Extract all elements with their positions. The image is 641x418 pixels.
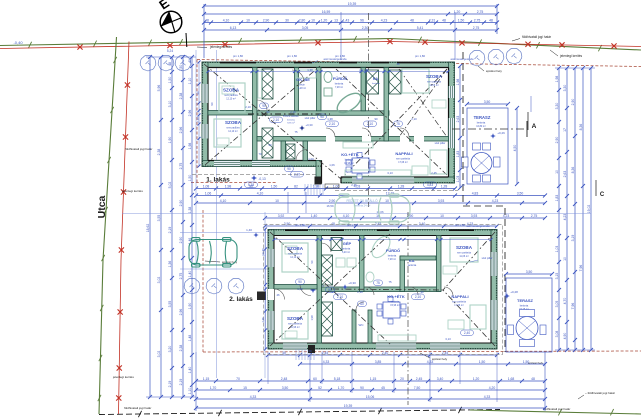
svg-text:3,93: 3,93 <box>471 214 478 218</box>
svg-text:KA.: KA. <box>373 77 379 81</box>
svg-text:SZOBA: SZOBA <box>287 246 304 251</box>
svg-text:2,10: 2,10 <box>337 295 343 299</box>
svg-text:SZOBA: SZOBA <box>287 316 304 321</box>
svg-text:1,50: 1,50 <box>179 65 183 72</box>
house1 room label szoba nw <box>223 88 240 101</box>
dimension chain top row4 <box>202 26 499 32</box>
svg-text:2,10: 2,10 <box>415 295 421 299</box>
house2 room label ka <box>408 259 417 267</box>
svg-text:5,28 m²: 5,28 m² <box>298 87 306 90</box>
svg-text:Utca: Utca <box>96 195 108 218</box>
house1 outer wall east <box>449 62 455 183</box>
svg-text:82: 82 <box>294 184 298 188</box>
house2 windows south wall <box>283 343 460 349</box>
svg-text:90: 90 <box>298 280 302 284</box>
terrace2 width dim <box>504 270 554 276</box>
house2 partition gep-furdo <box>360 236 365 292</box>
svg-text:2,96: 2,96 <box>179 127 183 134</box>
house1 shaft hatch 4 <box>389 70 401 94</box>
svg-text:7,28 m²: 7,28 m² <box>335 86 343 89</box>
svg-text:4,10: 4,10 <box>343 214 350 218</box>
dimension chain west row4 <box>179 55 185 399</box>
svg-text:1. lakás: 1. lakás <box>206 177 230 184</box>
svg-text:FÜRDŐ: FÜRDŐ <box>386 248 400 253</box>
house1 partition horizontal left rooms <box>208 111 253 116</box>
house1 sliding door south <box>352 177 414 183</box>
svg-text:1,10: 1,10 <box>188 388 192 395</box>
wall dims house2 left column <box>261 248 314 323</box>
svg-text:4,50: 4,50 <box>513 145 517 152</box>
svg-text:TERASZ: TERASZ <box>474 115 491 120</box>
svg-text:13: 13 <box>334 18 338 22</box>
svg-text:20: 20 <box>400 377 404 381</box>
svg-text:3,30: 3,30 <box>563 85 567 92</box>
section line house2 <box>407 212 409 405</box>
svg-text:8,36: 8,36 <box>571 167 575 174</box>
svg-text:90: 90 <box>262 104 266 108</box>
house2 name label <box>229 296 253 303</box>
svg-text:SZOBA: SZOBA <box>426 74 443 79</box>
tree group northeast 3 <box>506 48 522 64</box>
house2 room label szoba nw <box>287 246 304 259</box>
svg-text:11,06 m²: 11,06 m² <box>459 255 468 258</box>
svg-text:pm,90: pm,90 <box>261 248 265 256</box>
svg-text:építési hely: építési hely <box>528 361 544 365</box>
svg-text:GK. BE: GK. BE <box>296 77 310 82</box>
vertical guide line x216 <box>216 50 218 378</box>
svg-text:1,50: 1,50 <box>523 360 530 364</box>
tree group mid 2 <box>206 278 222 294</box>
svg-text:2,90: 2,90 <box>263 18 270 22</box>
house1 room label ka <box>372 77 381 85</box>
svg-text:46: 46 <box>276 293 280 297</box>
house1 west mini chain <box>198 61 201 168</box>
svg-text:40: 40 <box>188 59 192 63</box>
section line A vertical house1 <box>368 13 370 207</box>
svg-text:48: 48 <box>331 222 335 226</box>
svg-text:5,02: 5,02 <box>168 182 172 189</box>
svg-text:KO.+ÉTK: KO.+ÉTK <box>341 152 359 157</box>
svg-text:2. lakás: 2. lakás <box>229 296 253 303</box>
dimension chain top row1 <box>202 2 499 8</box>
house2 partition horizontal left rooms <box>274 285 317 290</box>
house1 shaft hatch 5 <box>286 144 295 159</box>
house1 kitchen counter <box>343 142 411 176</box>
house2 room label wc <box>359 323 365 327</box>
svg-text:1,50: 1,50 <box>458 18 465 22</box>
svg-text:1,98: 1,98 <box>225 184 232 188</box>
house2 bed szoba east <box>443 238 478 274</box>
wall dims house1 bottom <box>329 163 465 187</box>
svg-text:2,90: 2,90 <box>571 99 575 106</box>
svg-text:4,23: 4,23 <box>503 214 510 218</box>
house1 name label <box>206 177 230 184</box>
house1 room label nappali <box>395 151 412 164</box>
svg-text:7,50: 7,50 <box>414 386 421 390</box>
house1 corridor level mark <box>299 123 313 131</box>
svg-text:2,10: 2,10 <box>367 122 373 126</box>
svg-text:1,40: 1,40 <box>188 367 192 374</box>
house2 door arcs <box>300 243 453 310</box>
svg-text:1,43: 1,43 <box>343 18 350 22</box>
house2 pm heights <box>295 223 466 227</box>
house1 room label gk <box>296 77 310 90</box>
svg-text:12,10 m²: 12,10 m² <box>290 256 300 259</box>
house2 outer wall south <box>268 343 497 349</box>
dimension chain above house2 <box>263 214 547 220</box>
building envelope red dashed bottom <box>203 351 641 352</box>
svg-text:15,06: 15,06 <box>377 210 384 214</box>
svg-text:KA.: KA. <box>409 259 415 263</box>
house2 shaft hatch 3 <box>331 238 342 251</box>
svg-text:90: 90 <box>374 117 378 121</box>
house1 bed szoba nw <box>219 83 245 112</box>
house2 entrance step black <box>308 345 315 353</box>
tree group mid 1 <box>184 278 200 294</box>
svg-text:3,40: 3,40 <box>419 222 426 226</box>
house1 beam lines north wall <box>220 62 430 64</box>
svg-text:+0,28: +0,28 <box>510 290 518 294</box>
house2 west entrance <box>257 289 285 300</box>
svg-text:4,10: 4,10 <box>257 191 264 195</box>
svg-text:2,45: 2,45 <box>351 183 357 187</box>
east chains connectors <box>555 68 595 350</box>
svg-text:1,08: 1,08 <box>203 184 210 188</box>
svg-text:+0,30: +0,30 <box>305 123 313 127</box>
house1 window south-west wall <box>214 161 270 167</box>
svg-text:2,75: 2,75 <box>474 18 481 22</box>
svg-text:pm 1,80: pm 1,80 <box>233 54 244 58</box>
svg-text:2,90: 2,90 <box>555 137 559 144</box>
terrace1 height note <box>490 131 505 139</box>
svg-text:2,19: 2,19 <box>168 227 172 234</box>
svg-text:1,38: 1,38 <box>188 207 192 214</box>
house2 sofa nappali <box>448 305 486 329</box>
section marker A label <box>528 112 537 130</box>
north boundary red legal line with x marks <box>0 39 641 50</box>
svg-text:2,75: 2,75 <box>179 163 183 170</box>
house2 partition vertical left <box>317 236 322 344</box>
svg-text:75: 75 <box>294 130 298 134</box>
house1 window east wall <box>449 86 455 148</box>
svg-text:A: A <box>532 123 537 130</box>
dimension chain west row3 <box>168 55 174 399</box>
svg-text:60: 60 <box>360 302 364 306</box>
svg-text:2,75: 2,75 <box>179 273 183 280</box>
tree group west top 1 <box>140 55 156 71</box>
house1 door arcs <box>257 70 409 161</box>
svg-text:5,41: 5,41 <box>417 26 424 30</box>
svg-text:19,02: 19,02 <box>587 205 591 214</box>
capsule dims house2 <box>296 279 474 336</box>
svg-text:2,75: 2,75 <box>477 10 484 14</box>
terrace1 table <box>471 153 492 174</box>
house2 gep fixtures <box>336 258 356 267</box>
svg-text:45: 45 <box>381 386 385 390</box>
svg-text:6,13: 6,13 <box>230 26 237 30</box>
svg-text:3,10: 3,10 <box>168 101 172 108</box>
svg-text:1,98: 1,98 <box>555 76 559 83</box>
svg-text:2,38: 2,38 <box>157 149 161 156</box>
house2 room label nappali <box>451 294 468 307</box>
svg-text:3,92: 3,92 <box>278 214 285 218</box>
svg-text:2,31: 2,31 <box>429 18 436 22</box>
tree group west top 3 <box>175 55 191 71</box>
svg-text:9,38: 9,38 <box>248 183 254 187</box>
house2 room label szoba ne <box>456 245 473 258</box>
tree group west top 2 <box>158 55 174 71</box>
svg-text:3,50: 3,50 <box>526 270 533 274</box>
svg-text:földhivatali jogi határ: földhivatali jogi határ <box>522 35 552 39</box>
svg-text:4,70: 4,70 <box>563 298 567 305</box>
carport label <box>327 198 384 214</box>
svg-text:jelenlegi kerítés: jelenlegi kerítés <box>559 54 583 58</box>
house2 partition ka <box>400 256 436 292</box>
house2 window west wall <box>268 249 274 330</box>
svg-text:16,80 m²: 16,80 m² <box>476 125 486 128</box>
house2 outer wall west <box>268 230 274 350</box>
svg-text:3,50: 3,50 <box>282 386 289 390</box>
svg-text:70: 70 <box>236 377 240 381</box>
house2 outer wall north <box>268 230 497 236</box>
house1 window west wall 2 <box>202 124 208 139</box>
svg-text:1,20: 1,20 <box>321 18 328 22</box>
terrace1 label <box>474 115 491 128</box>
house2 west mini chain <box>264 228 267 351</box>
carport faint car <box>335 194 410 224</box>
svg-text:jelenlegi kerítés: jelenlegi kerítés <box>121 189 143 193</box>
house1 roof diagonals dash-dot <box>204 64 447 179</box>
house1 room label szoba east <box>426 74 443 87</box>
svg-text:48: 48 <box>489 18 493 22</box>
svg-text:2,30: 2,30 <box>362 26 369 30</box>
lot division dashed line <box>463 52 505 352</box>
terrace1 width dim <box>465 100 510 106</box>
svg-text:19,39: 19,39 <box>344 404 353 408</box>
street name Utca <box>96 195 108 218</box>
svg-text:90: 90 <box>320 115 324 119</box>
svg-text:1,15: 1,15 <box>370 377 377 381</box>
svg-text:3,55: 3,55 <box>168 301 172 308</box>
svg-text:jelenlegi kerítés: jelenlegi kerítés <box>209 45 233 49</box>
house2 bathtub <box>368 233 393 261</box>
svg-text:75: 75 <box>396 122 400 126</box>
svg-text:1,10: 1,10 <box>188 78 192 85</box>
svg-text:1,90: 1,90 <box>188 303 192 310</box>
svg-text:acél mestergerenda: acél mestergerenda <box>451 57 474 61</box>
svg-text:2,63: 2,63 <box>456 116 460 123</box>
svg-text:3,05: 3,05 <box>555 301 559 308</box>
boundary corner marker <box>185 33 188 47</box>
svg-text:SZOBA: SZOBA <box>223 88 240 93</box>
dimension chain below house2 <box>266 351 499 357</box>
svg-text:acél mestergerenda: acél mestergerenda <box>467 224 490 228</box>
house2 shaft hatch 2 <box>322 302 333 336</box>
svg-text:75: 75 <box>376 281 380 285</box>
svg-text:1,28: 1,28 <box>398 184 405 188</box>
house1 entrance walkway hatch <box>305 184 323 196</box>
svg-text:4,23: 4,23 <box>563 214 567 221</box>
house1 east small chain <box>456 64 462 190</box>
svg-text:1,00: 1,00 <box>297 287 303 291</box>
dimension chain east row5 <box>587 66 593 352</box>
envelope label eszaki <box>205 66 544 365</box>
svg-text:szél pillér: szél pillér <box>482 256 493 260</box>
dimension chain mid under house1 <box>194 184 457 190</box>
terrace1 height dim <box>513 106 519 186</box>
svg-text:5,20 m²: 5,20 m² <box>342 251 350 254</box>
house1 bed szoba sw <box>214 119 241 147</box>
svg-text:18,62: 18,62 <box>146 224 150 233</box>
dimension chain bottom row1 <box>194 377 547 383</box>
svg-text:3,05: 3,05 <box>302 26 309 30</box>
svg-text:3,19: 3,19 <box>571 235 575 242</box>
svg-text:2,10: 2,10 <box>357 290 363 294</box>
house2 partition ka-szoba <box>437 236 442 292</box>
west chain top connector <box>146 49 196 397</box>
svg-text:48: 48 <box>410 18 414 22</box>
svg-text:90: 90 <box>266 110 270 114</box>
svg-text:1,36: 1,36 <box>168 261 172 268</box>
svg-text:4,33: 4,33 <box>484 395 491 399</box>
dimension chain top row2 <box>202 10 499 16</box>
vertical guide line x196 <box>195 50 197 352</box>
svg-text:4,10: 4,10 <box>220 199 227 203</box>
svg-text:földhivatali jogi határ: földhivatali jogi határ <box>125 147 152 151</box>
svg-text:90: 90 <box>360 386 364 390</box>
svg-text:30: 30 <box>285 18 289 22</box>
dimension chain bottom row3 <box>194 395 547 401</box>
svg-text:96: 96 <box>360 18 364 22</box>
house2 bath fixtures <box>366 272 374 282</box>
svg-text:15,06: 15,06 <box>366 395 375 399</box>
svg-text:90: 90 <box>268 143 272 147</box>
house1 wardrobe gk <box>258 70 316 98</box>
svg-text:48: 48 <box>442 18 446 22</box>
svg-text:-0,13: -0,13 <box>258 177 265 181</box>
svg-text:1,40: 1,40 <box>188 271 192 278</box>
house1 wall insulation stipple <box>202 62 454 182</box>
house2 kitchen counter <box>378 335 416 341</box>
dimension chain east row1 <box>555 66 561 352</box>
svg-text:kerámia: kerámia <box>408 264 417 267</box>
svg-text:10: 10 <box>385 199 389 203</box>
wall dims house1 interior <box>258 110 417 161</box>
wall dims house2 interior <box>276 280 451 353</box>
svg-text:1,50: 1,50 <box>188 175 192 182</box>
svg-text:52: 52 <box>318 386 322 390</box>
svg-text:GÉP: GÉP <box>343 241 352 246</box>
dimension chain west row1 <box>146 55 152 399</box>
svg-text:2,90: 2,90 <box>179 237 183 244</box>
house2 room label furdo <box>386 248 400 261</box>
dimension chain bottom row2 <box>194 386 547 392</box>
svg-text:5,24: 5,24 <box>167 49 173 53</box>
house1 sofa nappali <box>412 150 447 175</box>
svg-text:2,19: 2,19 <box>179 379 183 386</box>
house1 room label ko-etk <box>341 152 359 165</box>
house1 outer wall south-west <box>202 161 321 167</box>
svg-text:KO.+ÉTK: KO.+ÉTK <box>387 294 405 299</box>
svg-text:2,10: 2,10 <box>294 173 300 177</box>
svg-text:1,70: 1,70 <box>338 386 345 390</box>
svg-text:3,85: 3,85 <box>375 360 382 364</box>
svg-text:NAPPALI: NAPPALI <box>451 294 468 299</box>
house2 bed szoba sw <box>282 311 308 339</box>
tree group mid 3 <box>228 278 244 294</box>
svg-text:1,20: 1,20 <box>473 377 480 381</box>
svg-text:12,19: 12,19 <box>386 191 395 195</box>
house1 szel piller notes <box>305 116 446 145</box>
house1 bath fixtures <box>324 72 332 97</box>
house1 outer wall west <box>202 62 208 167</box>
svg-text:3,13: 3,13 <box>387 171 393 175</box>
svg-text:3,50: 3,50 <box>517 191 524 195</box>
svg-text:10: 10 <box>555 170 559 174</box>
svg-text:1,50: 1,50 <box>479 360 486 364</box>
svg-text:1,03: 1,03 <box>456 176 460 183</box>
dimension chain west row2 <box>157 55 163 399</box>
house1 inner black wall lines <box>208 68 449 184</box>
dim connector verticals top <box>204 4 497 60</box>
terrace1 chairs <box>462 143 501 182</box>
house1 corridor wall south <box>257 136 449 142</box>
house2 shaft hatch 1 <box>322 255 333 285</box>
building envelope red dashed left <box>197 60 203 353</box>
svg-text:2,80: 2,80 <box>299 18 306 22</box>
svg-text:-0,40: -0,40 <box>13 40 23 45</box>
house1 shaft hatch 3 <box>367 70 379 94</box>
house2 window east wall <box>491 252 497 330</box>
svg-text:15: 15 <box>243 386 247 390</box>
svg-text:+0,26: +0,26 <box>497 131 505 135</box>
svg-text:3,93: 3,93 <box>438 199 445 203</box>
svg-text:3,55: 3,55 <box>157 215 161 222</box>
svg-text:2,75: 2,75 <box>531 214 538 218</box>
svg-text:pm 1,80: pm 1,80 <box>335 54 346 58</box>
svg-text:1,50: 1,50 <box>168 77 172 84</box>
dimension chain bottom row4 <box>194 404 547 410</box>
south boundary black dashed legal line <box>99 407 641 417</box>
svg-text:kerámia 24 m²: kerámia 24 m² <box>354 204 371 208</box>
house1 outer wall south-east <box>341 177 455 183</box>
svg-text:2,10: 2,10 <box>273 118 279 122</box>
house1 entrance connector wall <box>316 161 322 184</box>
svg-text:4,23: 4,23 <box>492 199 499 203</box>
svg-text:12,10 m²: 12,10 m² <box>226 98 236 101</box>
svg-text:1,83: 1,83 <box>555 195 559 202</box>
svg-text:90: 90 <box>287 167 291 171</box>
svg-text:SZOBA: SZOBA <box>456 245 473 250</box>
svg-text:9,91 m²: 9,91 m² <box>287 122 295 125</box>
svg-text:pm 1,80: pm 1,80 <box>287 54 298 58</box>
dimension chain mid row2 <box>194 199 547 205</box>
building envelope red dashed house1 south <box>191 182 276 184</box>
svg-text:7,28 m²: 7,28 m² <box>388 258 396 261</box>
svg-text:7,96: 7,96 <box>579 265 583 272</box>
svg-text:1,40: 1,40 <box>311 214 318 218</box>
svg-text:75: 75 <box>388 280 392 284</box>
svg-text:KÖZL+HALL: KÖZL+HALL <box>283 114 299 118</box>
svg-text:1,98: 1,98 <box>313 184 320 188</box>
svg-text:1,00: 1,00 <box>308 157 314 161</box>
svg-text:1,40: 1,40 <box>246 228 252 232</box>
wall dims house1 top <box>307 62 400 72</box>
svg-text:4,23: 4,23 <box>381 18 388 22</box>
house1 outer wall north <box>202 62 455 68</box>
svg-text:1,20: 1,20 <box>454 10 461 14</box>
house2 eaves dashed outline <box>264 225 503 355</box>
